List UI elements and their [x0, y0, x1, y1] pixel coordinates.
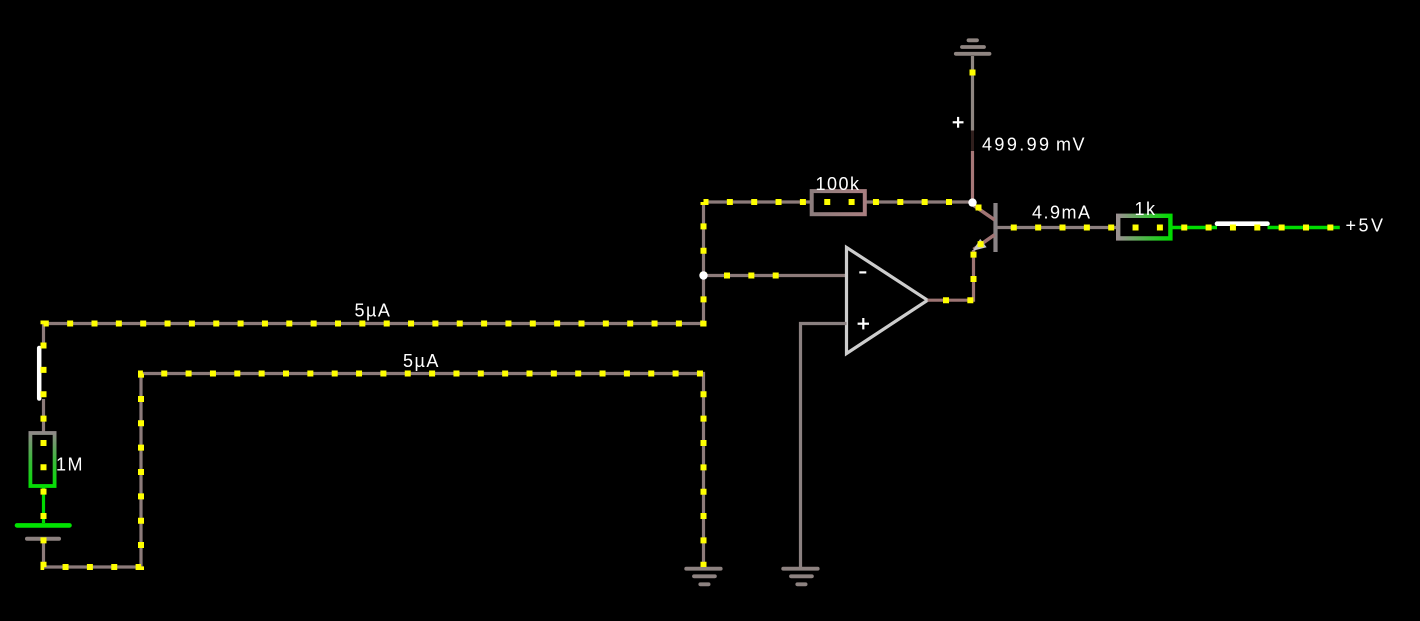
wire: collector riser upper (gray, to ground) — [971, 56, 974, 131]
transistor Q1 emitter arrow — [973, 239, 987, 251]
op-amp plus sign — [858, 318, 869, 329]
wire: op-amp output to emitter riser — [928, 250, 974, 300]
op-amp minus sign — [859, 271, 866, 273]
svg-text:5µA: 5µA — [355, 301, 392, 321]
svg-text:100k: 100k — [816, 174, 861, 194]
current dots: inverting input stub — [704, 273, 791, 279]
transistor Q1 emitter diagonal — [974, 235, 995, 250]
switch SW1 (closed, left column) — [37, 348, 42, 399]
wire: 100k row from node column to collector node — [704, 200, 973, 203]
resistor R1 1M (box style) — [30, 433, 54, 486]
battery V2 plus plate — [17, 523, 70, 528]
svg-text:1k: 1k — [1135, 199, 1157, 219]
resistor R3 1k (box style) — [1118, 216, 1170, 239]
node N2 (collector junction) — [968, 198, 976, 206]
svg-text:mV: mV — [1056, 135, 1086, 155]
battery V2 minus plate — [27, 537, 59, 541]
wire: +5V rail (green) — [1268, 226, 1340, 230]
wire loop left: node column, 5uA wire 1, left column, bottom wire, riser, 5uA wire 2, down to ground — [44, 202, 704, 567]
voltage source V1 body (faint gap line) — [971, 131, 974, 152]
wire: op-amp inverting input stub — [704, 274, 847, 277]
resistor R2 100k (box style) — [812, 191, 865, 214]
current dot: emitter diagonal — [978, 241, 984, 247]
switch SW2 (closed, right) — [1217, 221, 1268, 226]
current dots: base row through 1k to +5V — [998, 225, 1340, 231]
wire: op-amp non-inverting input stub and riser to ground — [801, 324, 847, 568]
node N1 (junction at inverting input) — [699, 271, 707, 279]
current dot: collector diagonal — [976, 205, 982, 211]
current dots: 100k row — [704, 199, 973, 205]
ground G2 (below node column) — [686, 569, 721, 585]
wire: collector riser lower (pink) — [971, 151, 974, 204]
svg-text:+5V: +5V — [1346, 216, 1386, 236]
voltage source V1 plus sign — [953, 117, 964, 128]
op-amp U1 triangle — [847, 247, 928, 353]
svg-text:5µA: 5µA — [403, 351, 440, 371]
current dots: left loop — [44, 202, 704, 567]
current dots: output/emitter path — [928, 250, 974, 300]
wire: 1k right lead (green) — [1170, 226, 1217, 230]
svg-text:499.99: 499.99 — [982, 135, 1051, 155]
current dot: collector riser — [970, 70, 976, 76]
ground G3 (below op-amp plus riser) — [783, 569, 818, 585]
svg-text:4.9mA: 4.9mA — [1032, 202, 1092, 222]
wire: transistor base lead row to 1k — [998, 226, 1119, 229]
wire: 1M to battery (green) — [42, 486, 45, 523]
svg-text:1M: 1M — [56, 454, 84, 474]
ground G1 (top, inverted) — [956, 40, 990, 54]
transistor Q1 collector diagonal — [974, 206, 995, 220]
transistor Q1 base bar — [993, 203, 997, 252]
